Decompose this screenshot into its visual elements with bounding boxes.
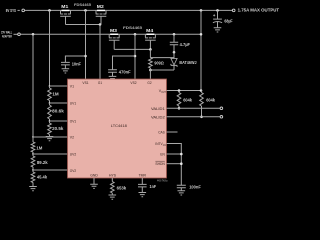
ground C1	[62, 69, 70, 73]
wire G1 to IC pin	[99, 25, 101, 80]
wire CAS stub	[167, 131, 178, 133]
resistor R7 604k	[177, 91, 192, 109]
svg-text:M3: M3	[110, 28, 118, 33]
svg-text:VALID1: VALID1	[151, 107, 165, 111]
diode D1 BAT46WJ	[171, 52, 197, 70]
node junction G1	[99, 23, 102, 26]
wire EN tie	[167, 153, 182, 155]
wire INTVCC	[167, 144, 182, 186]
ground chain2	[29, 187, 37, 191]
wire VOUT pin to riser	[167, 90, 202, 92]
wire VS1 tee to C1	[65, 56, 85, 62]
svg-text:VS2: VS2	[130, 81, 136, 85]
svg-text:FDS4465: FDS4465	[123, 25, 143, 30]
capacitor C3 4.7uF	[170, 34, 191, 52]
wire V1 to IC	[50, 85, 68, 87]
resistor R8 604k	[200, 91, 216, 117]
svg-text:470nF: 470nF	[119, 69, 131, 74]
wire VS2 tee to C2	[113, 56, 136, 70]
svg-text:V1: V1	[70, 85, 74, 89]
node junction row2 to riser	[200, 33, 203, 36]
svg-text:V2: V2	[70, 136, 74, 140]
node junction chain1 on 5V rail	[48, 9, 51, 12]
svg-text:4.7µF: 4.7µF	[180, 42, 191, 47]
svg-text:M1: M1	[61, 4, 69, 9]
capacitor C2 470nF	[108, 69, 131, 76]
transistor M3 (FDS4465 P-ch)	[109, 28, 120, 40]
node junction UV2 tap	[32, 153, 34, 155]
svg-text:653k: 653k	[117, 185, 127, 190]
capacitor C4 68uF polarized	[213, 10, 233, 27]
node junction OV2 tap	[32, 169, 34, 171]
svg-text:EN: EN	[160, 152, 165, 156]
svg-text:TMR: TMR	[139, 174, 147, 178]
node junction VS2 common source	[134, 33, 137, 36]
svg-text:OV1: OV1	[70, 119, 76, 123]
ground C5	[178, 191, 186, 195]
node junction VS2/C2 tee	[134, 55, 137, 58]
wire gate node to R909	[149, 49, 151, 57]
resistor R2 80.6k	[48, 103, 65, 121]
node junction pullup A top	[178, 89, 181, 92]
ground chain1	[46, 137, 54, 141]
svg-text:M2: M2	[97, 4, 105, 9]
wire UV1 to IC	[50, 102, 68, 104]
ground C2	[109, 76, 117, 80]
node junction EN	[180, 153, 183, 156]
svg-text:UV2: UV2	[70, 153, 76, 157]
wire VS2 to IC pin	[134, 34, 136, 79]
wire VALID1	[167, 107, 220, 109]
wire gate net row2	[114, 48, 150, 50]
wire M4 gate lead	[149, 40, 151, 49]
svg-text:68µF: 68µF	[224, 19, 233, 24]
svg-text:VALID2: VALID2	[151, 115, 165, 119]
ground HYS	[109, 195, 117, 199]
svg-text:UV1: UV1	[70, 102, 76, 106]
resistor R6 45.4k	[31, 170, 48, 186]
svg-text:100nF: 100nF	[189, 185, 201, 190]
node junction VS1 common source	[84, 9, 87, 12]
svg-text:FDS4465: FDS4465	[74, 2, 92, 7]
resistor R3 20.5k	[48, 121, 64, 136]
node 15V WALL ADAPTER input terminal	[1, 29, 20, 38]
wire OV2 to IC	[33, 169, 68, 171]
node junction SHDN	[180, 162, 183, 165]
svg-text:LTC4418: LTC4418	[111, 123, 128, 128]
wire GND pin	[93, 178, 95, 184]
wire R top to diode top	[150, 57, 174, 59]
svg-text:CC: CC	[163, 144, 167, 147]
svg-text:BAT46WJ: BAT46WJ	[179, 60, 196, 65]
svg-text:909Ω: 909Ω	[154, 61, 164, 66]
svg-text:VS1: VS1	[82, 81, 88, 85]
svg-text:1.75A MAX OUTPUT: 1.75A MAX OUTPUT	[238, 8, 280, 13]
capacitor C1 10nF	[61, 61, 81, 68]
wire VS1 to IC pin	[85, 10, 87, 79]
svg-text:5V SYS: 5V SYS	[6, 8, 16, 13]
node junction C4 tap	[216, 9, 219, 12]
node junction R8 VALID2	[200, 116, 203, 119]
svg-text:ADAPTER: ADAPTER	[2, 33, 12, 38]
node output terminal	[232, 8, 279, 13]
node junction pullup B top	[200, 89, 203, 92]
capacitor C6 1nF TMR	[138, 178, 157, 192]
wire VOUT riser	[200, 10, 202, 90]
svg-text:CAS: CAS	[158, 130, 165, 134]
wire VALID2	[167, 116, 220, 118]
svg-text:45.4k: 45.4k	[37, 175, 48, 180]
node junction UV1 tap	[49, 102, 51, 104]
node junction chain2 on 15V rail	[32, 33, 35, 36]
transistor M4 (FDS4465 P-ch)	[145, 28, 156, 40]
svg-text:OUT: OUT	[161, 91, 166, 94]
wire UV2 to IC	[33, 153, 68, 155]
svg-text:20.5k: 20.5k	[52, 126, 64, 131]
resistor R9 653k HYS	[111, 178, 127, 195]
wire 15V rail row2	[20, 33, 201, 35]
node junction C3 on row2	[173, 33, 176, 36]
capacitor C5 100nF	[177, 185, 201, 191]
wire SHDN tie	[167, 163, 182, 165]
node junction VOUT riser top	[200, 9, 203, 12]
svg-text:1nF: 1nF	[150, 184, 157, 189]
svg-text:10nF: 10nF	[72, 61, 82, 66]
node junction R/D bottom G2	[149, 69, 152, 72]
svg-text:M4: M4	[146, 28, 154, 33]
node junction V1 tee	[49, 85, 51, 87]
resistor R5 89.2k	[31, 154, 48, 170]
wire V2 to IC	[33, 136, 68, 138]
resistor R 909ohm	[149, 58, 165, 69]
svg-text:80.6k: 80.6k	[52, 108, 64, 113]
svg-text:OV2: OV2	[70, 169, 76, 173]
node junction V2 tee	[32, 136, 34, 138]
wire OV1 to IC	[50, 120, 68, 122]
svg-text:1M: 1M	[52, 91, 59, 96]
node junction VS1/C1 tee	[84, 55, 87, 58]
node VALID1 terminal	[220, 107, 223, 110]
svg-text:GND: GND	[90, 174, 98, 178]
svg-text:604k: 604k	[206, 98, 215, 103]
wire 5V rail row1	[25, 9, 233, 11]
wire chain1 riser	[49, 10, 51, 86]
node junction R7 VALID1	[178, 107, 181, 110]
wire M1 gate lead	[65, 16, 67, 24]
transistor M2 (FDS4465 P-ch)	[96, 4, 107, 16]
ground GND pin	[90, 184, 98, 188]
wire G2 to IC pin	[149, 68, 151, 79]
node junction gate/G2	[149, 48, 152, 51]
ground TMR	[139, 193, 147, 197]
svg-text:HYS: HYS	[109, 174, 117, 178]
wire gate net G1	[66, 24, 102, 26]
svg-text:604k: 604k	[183, 98, 192, 103]
wire diode bottom to R bottom	[150, 69, 174, 71]
wire M3 gate lead	[113, 40, 115, 49]
node junction C3/diode	[173, 51, 176, 54]
svg-text:1M: 1M	[36, 146, 43, 151]
resistor R4 1M	[31, 137, 43, 154]
svg-text:4418 TA01a: 4418 TA01a	[157, 180, 168, 183]
svg-text:SHDN: SHDN	[155, 162, 165, 166]
IC U1 LTC4418 body	[68, 79, 167, 178]
wire chain2 riser	[32, 34, 34, 137]
svg-text:G2: G2	[147, 81, 151, 85]
node junction OV1 tap	[49, 120, 51, 122]
node 5V SYS input terminal	[6, 8, 25, 13]
ground C4	[214, 28, 222, 32]
wire M2 gate lead	[100, 16, 102, 24]
node VALID2 terminal	[220, 116, 223, 119]
svg-text:G1: G1	[98, 81, 102, 85]
resistor R1 1M	[48, 86, 60, 103]
transistor M1 (FDS4465 P-ch)	[60, 4, 71, 16]
svg-text:89.2k: 89.2k	[37, 160, 49, 165]
